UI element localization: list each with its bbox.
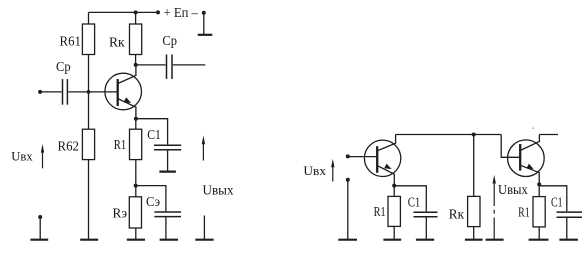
node emitter junction right1 xyxy=(392,184,396,188)
svg-text:R61: R61 xyxy=(60,33,82,48)
transistor VT2 emitter xyxy=(377,166,395,186)
svg-text:Ср: Ср xyxy=(162,33,177,48)
ground bar under Uvyx xyxy=(195,239,213,241)
svg-text:C1: C1 xyxy=(408,195,421,210)
ground bar input right xyxy=(338,239,357,241)
ground bar at -Ep xyxy=(198,34,213,36)
wire emitter1 to C1a xyxy=(394,186,426,212)
wire Rk bottom lead xyxy=(135,55,137,65)
wire emitter to C1 xyxy=(136,119,168,145)
svg-text:C1: C1 xyxy=(147,127,161,142)
wire Cp to base xyxy=(68,91,117,93)
svg-text:Uвх: Uвх xyxy=(303,163,326,178)
ground bar under Uvyx right xyxy=(486,239,504,241)
wire node to Re xyxy=(135,186,137,197)
node -Ep terminal xyxy=(202,11,206,15)
stray speck xyxy=(533,128,534,129)
ground bar under Rk xyxy=(465,239,483,241)
resistor Rk (right) xyxy=(468,196,480,226)
wire lower terminal down xyxy=(39,217,41,239)
ground bar under C1b xyxy=(559,239,578,241)
resistor R1 (right a) xyxy=(388,196,400,226)
ground bar under R1a xyxy=(383,239,401,241)
capacitor C1 (left) xyxy=(154,145,181,150)
node base divider junction xyxy=(87,90,91,94)
ground bar input xyxy=(30,239,48,241)
transistor VT3 collector xyxy=(520,135,539,151)
transistor VT1 circle xyxy=(105,73,142,110)
wire input lower terminal down xyxy=(347,180,349,239)
node junction rail/Rk xyxy=(134,10,138,14)
wire rail step down to VT3 base xyxy=(501,135,520,158)
svg-text:Ср: Ср xyxy=(56,59,71,74)
wire node to Ce xyxy=(136,186,166,212)
capacitor Cp output xyxy=(167,55,173,80)
wire R1 bottom lead xyxy=(135,160,137,186)
node R1/Re junction xyxy=(134,184,138,188)
node emitter junction xyxy=(134,117,138,121)
wire Rk bottom lead xyxy=(473,227,475,239)
arrow Uvx right xyxy=(331,159,334,182)
svg-text:R1: R1 xyxy=(374,204,386,219)
arrow Uvx left xyxy=(41,144,44,168)
arrow Uvyx right with dashed lead xyxy=(493,175,496,239)
ground bar under R62 xyxy=(80,239,98,241)
wire Uvyx ground lead xyxy=(203,216,205,240)
capacitor Ce xyxy=(154,212,181,217)
wire top supply rail (left circuit) xyxy=(89,11,159,13)
wire R61 bottom lead to base node xyxy=(88,55,90,130)
wire Rk top lead xyxy=(135,12,137,24)
wire Re bottom lead xyxy=(135,228,137,239)
transistor VT2 base bar xyxy=(376,146,378,173)
wire input to base (right T1) xyxy=(348,156,377,158)
svg-text:Rк: Rк xyxy=(109,34,125,49)
wire emitter1 to R1 xyxy=(393,186,395,197)
node input terminal top (right) xyxy=(346,154,350,158)
svg-text:Uвых: Uвых xyxy=(498,183,528,198)
wire emitter2 to C1b xyxy=(539,186,567,211)
transistor VT1 base bar xyxy=(117,79,119,106)
transistor VT3 base bar xyxy=(519,144,521,171)
arrow Uvyx left xyxy=(202,136,205,161)
wire collector out (right end) xyxy=(539,134,558,136)
node input terminal bottom (right) xyxy=(346,178,350,182)
svg-text:Сэ: Сэ xyxy=(146,194,160,209)
wire collector to output cap xyxy=(136,64,166,66)
svg-text:Rк: Rк xyxy=(449,206,465,221)
ground bar under C1a xyxy=(416,239,434,241)
node input terminal xyxy=(38,90,42,94)
resistor R61 xyxy=(82,24,94,55)
wire -Ep down lead xyxy=(203,13,205,34)
transistor VT1 collector xyxy=(118,65,136,84)
transistor VT1 emitter arrow xyxy=(124,97,131,103)
ground bar under Ce xyxy=(160,239,178,241)
capacitor C1 (right a) xyxy=(414,212,438,217)
wire C1a bottom lead xyxy=(425,218,427,240)
transistor VT3 emitter arrow xyxy=(527,164,534,170)
wire C1 bottom lead xyxy=(167,151,169,171)
node collector junction xyxy=(134,63,138,67)
wire collector rail (right) xyxy=(396,134,502,136)
transistor VT3 circle xyxy=(508,140,545,177)
transistor VT2 circle xyxy=(364,140,400,176)
wire emitter to R1 xyxy=(135,119,137,130)
wire R1b bottom lead xyxy=(538,227,540,239)
wire R61 top lead from rail corner xyxy=(88,12,90,24)
node input lower terminal xyxy=(38,215,42,219)
wire output xyxy=(173,64,205,66)
wire R1a bottom lead xyxy=(393,226,395,239)
svg-text:R1: R1 xyxy=(114,137,126,152)
wire C1b bottom lead xyxy=(566,217,568,239)
svg-text:R1: R1 xyxy=(518,205,530,220)
svg-text:Uвх: Uвх xyxy=(11,150,33,164)
wire Rk top lead (right) xyxy=(473,135,475,197)
transistor VT3 emitter xyxy=(520,165,539,184)
node emitter junction right2 xyxy=(537,182,541,186)
transistor VT2 collector xyxy=(377,135,395,151)
node +Ep terminal left xyxy=(156,10,160,14)
node rail/Rk junction xyxy=(472,133,476,137)
capacitor Cp input xyxy=(63,79,68,105)
ground bar under C1 xyxy=(159,171,176,173)
svg-text:Uвых: Uвых xyxy=(203,183,234,198)
wire R62 bottom lead xyxy=(88,160,90,239)
wire emitter2 to R1b xyxy=(538,184,540,196)
ground bar under R1b xyxy=(529,239,549,241)
resistor Re xyxy=(129,197,141,228)
transistor VT1 emitter xyxy=(118,99,137,119)
svg-text:R62: R62 xyxy=(58,138,80,153)
wire input to Cp xyxy=(40,91,62,93)
svg-text:C1: C1 xyxy=(551,195,563,210)
resistor R62 xyxy=(82,129,94,159)
ground bar under Re xyxy=(127,239,145,241)
capacitor C1 (right b) xyxy=(557,212,582,217)
transistor VT2 emitter arrow xyxy=(384,164,391,170)
svg-text:+ Еп –: + Еп – xyxy=(164,5,199,20)
wire Ce bottom lead xyxy=(165,217,167,239)
resistor R1 (left) xyxy=(130,129,142,159)
svg-text:Rэ: Rэ xyxy=(113,206,128,221)
resistor R1 (right b) xyxy=(533,197,545,227)
resistor Rk (left) xyxy=(130,24,142,55)
